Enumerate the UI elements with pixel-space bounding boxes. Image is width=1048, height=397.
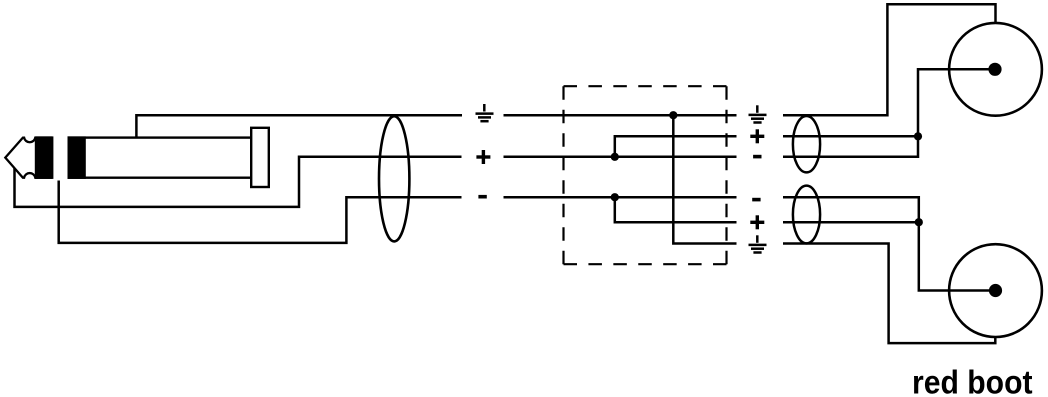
svg-text:red boot: red boot <box>912 363 1033 397</box>
